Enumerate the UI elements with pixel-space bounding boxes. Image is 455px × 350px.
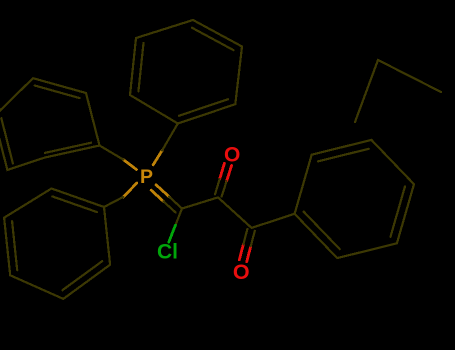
phenyl ring top (P-phenyl 1) (130, 20, 242, 124)
phenyl ring lower-left (P-phenyl 3) (4, 189, 110, 299)
svg-text:O: O (224, 144, 240, 167)
ethyl zigzag top-right (355, 60, 441, 122)
bond C ylide to C1 (182, 197, 218, 208)
double bond C2=O2 (239, 229, 255, 262)
bond C2 to right phenyl (252, 214, 295, 228)
bond P to upper-left phenyl (100, 146, 137, 170)
svg-text:Cl: Cl (157, 241, 178, 264)
phenyl ring right (benzoyl phenyl) (295, 140, 414, 258)
phenyl ring upper-left (P-phenyl 2) (0, 78, 100, 170)
svg-text:P: P (140, 166, 153, 188)
double bond C1=O1 (215, 163, 232, 196)
bond P to lower-left phenyl (104, 183, 137, 207)
bond P to top phenyl (153, 124, 178, 165)
bond C ylide to Cl (169, 209, 182, 243)
svg-text:O: O (233, 260, 250, 284)
bond C1 to C2 (218, 197, 252, 228)
double bond P=C ylide (151, 185, 182, 213)
